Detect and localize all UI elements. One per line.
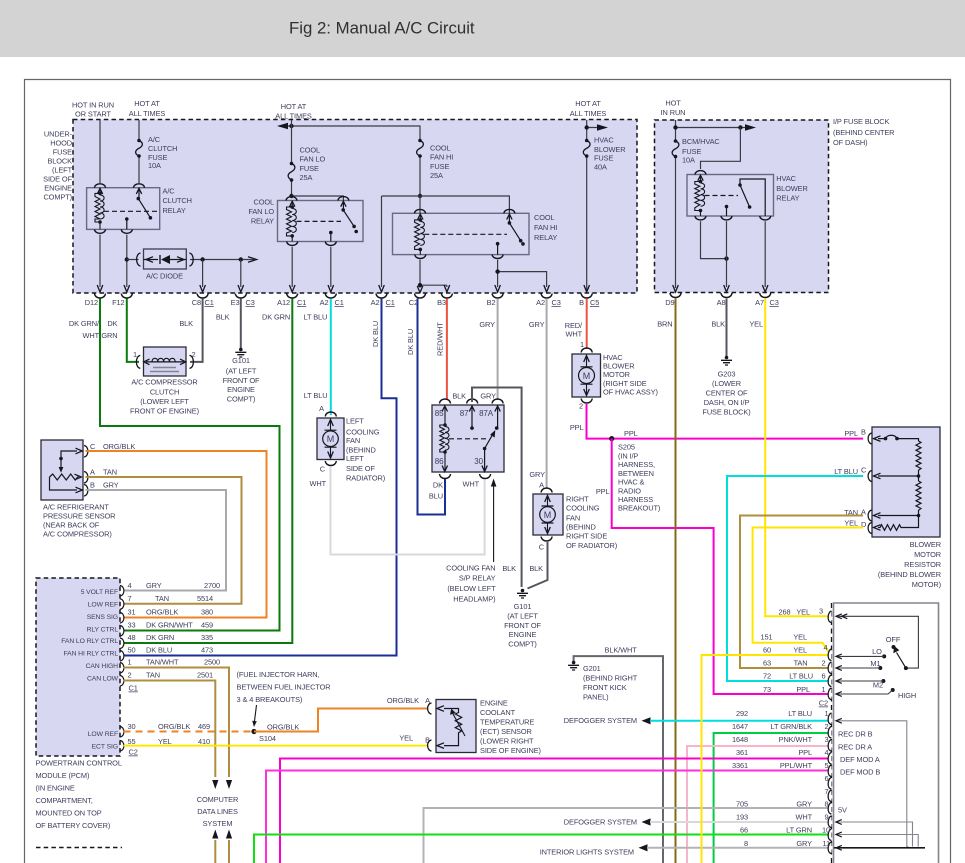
svg-text:BRN: BRN [657, 320, 672, 329]
svg-text:RELAY: RELAY [163, 206, 186, 215]
svg-text:RADIATOR): RADIATOR) [346, 473, 385, 482]
svg-text:YEL: YEL [399, 734, 413, 743]
svg-text:8: 8 [744, 839, 748, 848]
svg-text:YEL: YEL [844, 519, 858, 528]
svg-text:73: 73 [763, 685, 771, 694]
control head internal line pin C1-1 [836, 721, 909, 847]
svg-text:DK GRN/: DK GRN/ [69, 319, 100, 328]
svg-text:1: 1 [580, 340, 584, 349]
svg-text:HVAC &: HVAC & [618, 478, 645, 487]
svg-text:SYSTEM: SYSTEM [203, 819, 233, 828]
sensor internals potentiometer [50, 474, 79, 480]
svg-text:HVAC: HVAC [776, 174, 796, 183]
svg-text:410: 410 [198, 737, 210, 746]
wire E3 BLK to G101 [240, 299, 242, 349]
hvac motor top arc [581, 348, 592, 353]
A/C clutch relay bottom arcs [95, 229, 106, 233]
svg-text:268: 268 [778, 607, 790, 616]
hvac blower fuse to B C5 arrow [584, 285, 590, 292]
svg-text:11: 11 [823, 839, 830, 848]
wire resistor C LT BLU to control head pin 6 [727, 476, 863, 681]
svg-text:BETWEEN FUEL INJECTOR: BETWEEN FUEL INJECTOR [237, 683, 331, 692]
svg-text:YEL: YEL [793, 646, 807, 655]
blower switch M1 contact + line to pin 2 [878, 666, 882, 670]
svg-text:BETWEEN: BETWEEN [618, 469, 654, 478]
svg-text:CLUTCH: CLUTCH [163, 196, 192, 205]
svg-text:G101: G101 [232, 356, 250, 365]
bottom terminal arcs I/P box [670, 293, 681, 298]
svg-text:30: 30 [474, 457, 483, 466]
svg-text:LEFT: LEFT [346, 416, 364, 425]
svg-text:PPL: PPL [570, 423, 584, 432]
svg-text:BLK: BLK [502, 564, 516, 573]
svg-text:2: 2 [192, 350, 196, 359]
svg-text:GRY: GRY [529, 320, 545, 329]
svg-text:ALL TIMES: ALL TIMES [570, 109, 607, 118]
svg-text:30: 30 [128, 722, 136, 731]
A/C compressor clutch box [144, 347, 187, 376]
svg-text:GRY: GRY [479, 320, 495, 329]
hvac blower fuse feed wire + right arrow [587, 120, 600, 293]
svg-text:GRY: GRY [480, 392, 496, 401]
svg-text:BLU: BLU [429, 492, 443, 501]
svg-text:1647: 1647 [732, 722, 748, 731]
svg-text:(BEHIND: (BEHIND [566, 523, 596, 532]
wire 361 PPL [280, 759, 829, 863]
svg-text:DK: DK [433, 481, 443, 490]
control head connector dashed edge [831, 603, 833, 863]
PCM box [36, 578, 120, 756]
svg-text:COOL: COOL [534, 213, 555, 222]
wire relay to A8 [726, 221, 728, 287]
svg-text:4: 4 [824, 748, 828, 757]
svg-text:DATA LINES: DATA LINES [197, 807, 238, 816]
svg-text:FAN LO: FAN LO [300, 155, 326, 164]
wire A12 DK GRN [124, 299, 293, 644]
hvac blower motor box [572, 354, 601, 397]
blower switch feed line from pin 3 [836, 616, 918, 668]
svg-text:C1: C1 [205, 298, 214, 307]
svg-text:BLK: BLK [216, 313, 230, 322]
svg-text:PPL: PPL [596, 487, 610, 496]
svg-text:WHT: WHT [462, 480, 479, 489]
svg-text:DEFOGGER SYSTEM: DEFOGGER SYSTEM [564, 716, 637, 725]
svg-text:BLOWER: BLOWER [910, 540, 941, 549]
diode branch junction dots to C8/E3 [200, 257, 204, 261]
svg-text:C3: C3 [246, 298, 255, 307]
svg-text:1: 1 [133, 350, 137, 359]
control head internal line pin 9 [836, 822, 913, 847]
svg-text:LT BLU: LT BLU [304, 391, 328, 400]
svg-text:(LOWER RIGHT: (LOWER RIGHT [480, 737, 534, 746]
wire resistor A TAN to control head pin 2 [740, 516, 863, 669]
svg-text:REC DR A: REC DR A [838, 743, 872, 752]
right cooling fan box [533, 494, 563, 535]
wire B3 RED/WHT to s/p relay 85 [446, 299, 448, 401]
svg-text:TEMPERATURE: TEMPERATURE [480, 718, 534, 727]
svg-text:SIDE OF ENGINE): SIDE OF ENGINE) [480, 746, 541, 755]
svg-text:MOTOR): MOTOR) [912, 580, 941, 589]
left cooling fan top arc [325, 412, 336, 417]
resistor pin C arc [868, 471, 872, 482]
svg-text:FAN HI: FAN HI [534, 223, 557, 232]
svg-text:G201: G201 [583, 664, 601, 673]
wire right fan C BLK to G101 [528, 542, 548, 589]
svg-text:B: B [90, 481, 95, 490]
cool fan hi feed split [418, 194, 422, 198]
svg-text:63: 63 [763, 659, 771, 668]
clutch coil symbol [146, 361, 184, 363]
wire diode to C8 [202, 260, 204, 288]
wire relay to F12 with diode junction [126, 235, 128, 287]
svg-text:A12: A12 [277, 298, 290, 307]
svg-text:C1: C1 [129, 684, 138, 693]
wire 1648 PNK/WHT [687, 746, 829, 863]
svg-text:OFF: OFF [886, 635, 901, 644]
svg-text:C1: C1 [386, 298, 395, 307]
svg-text:3361: 3361 [732, 761, 748, 770]
underhood fuse block box [73, 120, 637, 294]
svg-text:PPL: PPL [798, 748, 812, 757]
svg-text:DEF MOD A: DEF MOD A [840, 755, 880, 764]
cool fan hi relay linkage dashed [424, 233, 507, 235]
svg-text:FAN LO RLY CTRL: FAN LO RLY CTRL [61, 638, 118, 645]
right cooling fan motor [540, 507, 556, 523]
svg-text:(FUEL INJECTOR HARN,: (FUEL INJECTOR HARN, [237, 670, 320, 679]
svg-text:COOL: COOL [300, 146, 321, 155]
svg-text:IN RUN: IN RUN [661, 108, 686, 117]
sensor pin C arc [84, 446, 88, 458]
resistor internals [874, 436, 881, 442]
resistor pin D arc [868, 523, 872, 534]
wire D12 DK GRN/WHT [100, 299, 280, 631]
svg-text:ALL TIMES: ALL TIMES [129, 109, 166, 118]
svg-text:COOLING: COOLING [566, 504, 600, 513]
svg-text:5V: 5V [838, 806, 847, 815]
hvac blower fuse [585, 139, 589, 143]
svg-text:2500: 2500 [204, 658, 220, 667]
svg-text:FAN LO: FAN LO [248, 207, 274, 216]
svg-text:(LOWER LEFT: (LOWER LEFT [140, 397, 189, 406]
svg-text:72: 72 [763, 672, 771, 681]
svg-text:40A: 40A [594, 163, 607, 172]
svg-text:9: 9 [824, 813, 828, 822]
svg-text:ORG/BLK: ORG/BLK [103, 442, 135, 451]
svg-text:C3: C3 [770, 298, 779, 307]
left cooling fan motor symbol [323, 431, 339, 447]
wire A2 DK BLU to PCM fan hi [124, 299, 397, 656]
svg-text:2: 2 [128, 671, 132, 680]
cool fan hi fuse wire [419, 157, 421, 196]
wire bcm fuse to D9 arrow [673, 285, 679, 292]
svg-text:705: 705 [736, 800, 748, 809]
cool fan lo relay linkage dashed [297, 220, 342, 222]
control head internal line pin 10 [836, 835, 918, 847]
bcm/hvac fuse feed wire + right arrow [676, 120, 749, 288]
svg-text:HOT IN RUN: HOT IN RUN [72, 101, 114, 110]
pin arcs C2 group [828, 611, 831, 623]
svg-text:COOLING FAN: COOLING FAN [446, 564, 495, 573]
splice S104 [251, 729, 256, 734]
svg-text:UNDER-: UNDER- [44, 130, 73, 139]
svg-text:BLK: BLK [711, 320, 725, 329]
svg-text:5514: 5514 [197, 594, 213, 603]
svg-text:10A: 10A [148, 161, 161, 170]
svg-text:FRONT OF: FRONT OF [504, 621, 541, 630]
svg-text:BLK: BLK [529, 564, 543, 573]
svg-text:C2: C2 [819, 699, 828, 708]
partial dashed box bottom left [36, 847, 122, 849]
svg-text:COOL: COOL [253, 198, 274, 207]
wire F12 DK GRN [127, 299, 139, 362]
ECT pin B arc [428, 740, 432, 751]
svg-text:335: 335 [201, 633, 213, 642]
svg-text:DEF MOD B: DEF MOD B [840, 768, 880, 777]
svg-text:CLUTCH: CLUTCH [148, 144, 177, 153]
svg-text:C: C [320, 465, 326, 474]
header bar [0, 0, 965, 57]
svg-text:B: B [861, 428, 866, 437]
svg-text:25A: 25A [430, 171, 443, 180]
svg-text:HARNESS,: HARNESS, [618, 460, 655, 469]
svg-text:(BEHIND RIGHT: (BEHIND RIGHT [583, 674, 638, 683]
wire S205 PPL down to control head pin 1 [612, 439, 829, 694]
svg-text:G101: G101 [514, 602, 532, 611]
svg-text:A: A [319, 404, 324, 413]
wire C2 DK BLU to s/p relay 86 [418, 299, 446, 515]
svg-text:LT GRN: LT GRN [786, 826, 812, 835]
svg-text:3 & 4 BREAKOUTS): 3 & 4 BREAKOUTS) [237, 695, 303, 704]
A/C refrigerant pressure sensor box [41, 440, 83, 500]
svg-text:2501: 2501 [197, 671, 213, 680]
svg-text:87A: 87A [479, 409, 494, 418]
svg-text:ENGINE: ENGINE [227, 385, 255, 394]
svg-text:(BELOW LEFT: (BELOW LEFT [447, 584, 496, 593]
svg-text:FRONT OF: FRONT OF [223, 376, 260, 385]
svg-text:HOT: HOT [665, 99, 681, 108]
bottom terminal arcs underhood box [95, 294, 106, 299]
cool fan lo relay switch [331, 201, 354, 242]
svg-text:C1: C1 [335, 298, 344, 307]
bus wire with left arrow (cool fan feed) [279, 126, 420, 139]
svg-text:FRONT OF ENGINE): FRONT OF ENGINE) [130, 407, 199, 416]
wire D9 BRN down [675, 299, 677, 863]
svg-text:FRONT KICK: FRONT KICK [583, 683, 627, 692]
svg-text:459: 459 [201, 621, 213, 630]
svg-text:D12: D12 [85, 298, 98, 307]
wire 60 YEL down [702, 655, 830, 863]
svg-text:ENGINE: ENGINE [44, 184, 72, 193]
svg-text:2: 2 [824, 722, 828, 731]
svg-text:FUSE: FUSE [430, 162, 449, 171]
svg-text:(BEHIND CENTER: (BEHIND CENTER [833, 128, 894, 137]
wire A2 C3 GRY to right cooling fan [546, 299, 548, 490]
wire 3361 PPL/WHT [266, 771, 829, 863]
svg-text:MODULE (PCM): MODULE (PCM) [36, 771, 90, 780]
svg-text:MOTOR: MOTOR [603, 370, 630, 379]
blower switch LO contact + line to pin 4 [882, 654, 886, 658]
A/C clutch relay switch [127, 188, 151, 230]
svg-text:LO: LO [872, 647, 882, 656]
svg-text:A/C: A/C [148, 135, 161, 144]
wire diode to E3 [240, 260, 242, 288]
svg-text:TAN: TAN [146, 671, 160, 680]
svg-text:WHT: WHT [309, 479, 326, 488]
svg-text:3: 3 [819, 607, 823, 616]
A/C diode left arc [137, 253, 141, 266]
cool fan hi relay coil [415, 220, 421, 250]
svg-text:ORG/BLK: ORG/BLK [387, 696, 419, 705]
svg-text:1648: 1648 [732, 735, 748, 744]
svg-text:31: 31 [128, 608, 136, 617]
svg-text:F12: F12 [112, 298, 124, 307]
svg-text:C: C [90, 442, 96, 451]
svg-text:55: 55 [128, 737, 136, 746]
wire A7 YEL to control head pin 3 [765, 299, 829, 617]
wire fan hi coil to C2 and B3 [420, 260, 447, 288]
svg-text:SIDE OF: SIDE OF [346, 464, 375, 473]
svg-text:25A: 25A [300, 173, 313, 182]
svg-text:LT GRN/BLK: LT GRN/BLK [771, 722, 813, 731]
svg-text:ENGINE: ENGINE [480, 699, 508, 708]
ECT thermistor [444, 709, 462, 746]
wire PCM pin55 YEL to ECT pin B [124, 745, 429, 747]
svg-text:PPL: PPL [796, 685, 810, 694]
junction on cool fan lo wire [289, 124, 293, 128]
svg-text:RELAY: RELAY [534, 233, 557, 242]
hvac blower relay top arc [695, 171, 706, 175]
wire sensor B GRY to PCM [86, 490, 227, 591]
cool fan lo relay coil [287, 207, 293, 236]
cool fan hi relay box [393, 213, 530, 254]
wire fan lo relay switch to A2 [330, 247, 332, 287]
control head internal line pin 11 [834, 847, 925, 849]
svg-text:86: 86 [435, 457, 444, 466]
svg-text:GRY: GRY [796, 839, 812, 848]
svg-text:POWERTRAIN CONTROL: POWERTRAIN CONTROL [36, 759, 122, 768]
svg-text:C5: C5 [590, 298, 599, 307]
s/p relay 87 BLK wire to G101 [472, 388, 522, 588]
svg-text:6: 6 [821, 672, 825, 681]
svg-text:PPL: PPL [624, 429, 638, 438]
wire S104 ORG/BLK to ECT pin A [254, 709, 428, 732]
svg-text:FUSE: FUSE [53, 148, 72, 157]
svg-text:C2: C2 [129, 748, 138, 757]
I/P fuse block box [655, 120, 829, 293]
svg-text:GRY: GRY [146, 581, 162, 590]
svg-text:A/C: A/C [163, 186, 176, 195]
svg-text:HARNESS: HARNESS [618, 495, 653, 504]
svg-text:87: 87 [460, 409, 469, 418]
svg-text:HIGH: HIGH [898, 691, 916, 700]
svg-text:A7: A7 [755, 298, 764, 307]
svg-text:33: 33 [128, 621, 136, 630]
svg-text:S104: S104 [259, 734, 276, 743]
svg-text:CAN HIGH: CAN HIGH [86, 663, 119, 670]
svg-text:RLY CTRL: RLY CTRL [87, 627, 119, 634]
svg-text:151: 151 [760, 633, 772, 642]
A/C diode right arc [189, 253, 193, 266]
svg-text:LOW REF: LOW REF [88, 731, 118, 738]
svg-text:473: 473 [201, 646, 213, 655]
svg-text:M2: M2 [873, 681, 883, 690]
wire feed cool fan lo fuse [291, 120, 293, 196]
svg-text:(NEAR BACK OF: (NEAR BACK OF [43, 521, 100, 530]
svg-text:GRN: GRN [101, 331, 117, 340]
wire feed A/C clutch fuse [138, 120, 140, 183]
wire BLK/WHT from G201 down [574, 656, 663, 863]
svg-text:4: 4 [823, 643, 827, 652]
ECT pin arrows [437, 706, 444, 712]
ground G101 (engine compt) [239, 348, 243, 352]
svg-text:CLUTCH: CLUTCH [150, 388, 179, 397]
svg-text:292: 292 [736, 709, 748, 718]
svg-text:50: 50 [128, 646, 136, 655]
svg-text:HOT AT: HOT AT [134, 99, 160, 108]
svg-text:ENGINE: ENGINE [509, 630, 537, 639]
right cooling fan bottom arc [541, 537, 552, 542]
svg-text:YEL: YEL [749, 320, 763, 329]
wire fan lo relay coil to A12 [291, 247, 293, 287]
hvac blower relay switch [727, 179, 766, 216]
wire 66 LT GRN [254, 835, 829, 863]
wire C8 BLK [190, 299, 203, 362]
svg-text:60: 60 [763, 646, 771, 655]
s/p relay linkage dashed [449, 438, 489, 440]
svg-text:BCM/HVAC: BCM/HVAC [682, 137, 720, 146]
svg-text:6: 6 [824, 774, 828, 783]
svg-text:66: 66 [740, 826, 748, 835]
svg-text:COMPUTER: COMPUTER [197, 795, 239, 804]
svg-text:SIDE OF: SIDE OF [43, 175, 72, 184]
svg-text:(AT LEFT: (AT LEFT [226, 367, 257, 376]
svg-text:LEFT: LEFT [346, 454, 364, 463]
wire relay coil to A8 join [701, 221, 727, 258]
svg-text:OF RADIATOR): OF RADIATOR) [566, 541, 617, 550]
svg-text:10A: 10A [682, 155, 695, 164]
resistor pin A arc [868, 510, 872, 521]
svg-text:BLK: BLK [452, 392, 466, 401]
svg-text:5 VOLT REF: 5 VOLT REF [81, 589, 118, 596]
svg-text:DK BLU: DK BLU [371, 321, 380, 347]
svg-text:(RIGHT SIDE: (RIGHT SIDE [603, 379, 647, 388]
svg-text:G203: G203 [718, 369, 736, 378]
svg-text:C: C [861, 466, 867, 475]
wire A2 LT BLU to left cooling fan [330, 299, 332, 416]
svg-text:RIGHT: RIGHT [566, 495, 589, 504]
hvac blower relay linkage dashed [705, 195, 739, 197]
svg-text:HOOD: HOOD [50, 139, 72, 148]
svg-text:WHT: WHT [82, 331, 99, 340]
svg-text:D9: D9 [665, 298, 674, 307]
svg-text:BLOCK: BLOCK [47, 157, 72, 166]
ECT pin A arc [428, 703, 432, 714]
svg-text:TAN: TAN [794, 659, 808, 668]
svg-text:E3: E3 [231, 298, 240, 307]
wire B2 GRY to s/p relay 87A [497, 299, 499, 401]
svg-text:HOT AT: HOT AT [281, 102, 307, 111]
svg-text:B: B [579, 298, 584, 307]
svg-text:CENTER OF: CENTER OF [706, 388, 748, 397]
svg-text:DK GRN: DK GRN [262, 313, 290, 322]
control head box top/right [834, 603, 939, 863]
svg-text:A2: A2 [320, 298, 329, 307]
hvac motor bottom arc [581, 399, 592, 404]
svg-text:OF BATTERY COVER): OF BATTERY COVER) [36, 821, 111, 830]
wire relay to A7 [764, 221, 766, 287]
svg-text:8: 8 [824, 800, 828, 809]
svg-text:RED/WHT: RED/WHT [436, 322, 445, 356]
